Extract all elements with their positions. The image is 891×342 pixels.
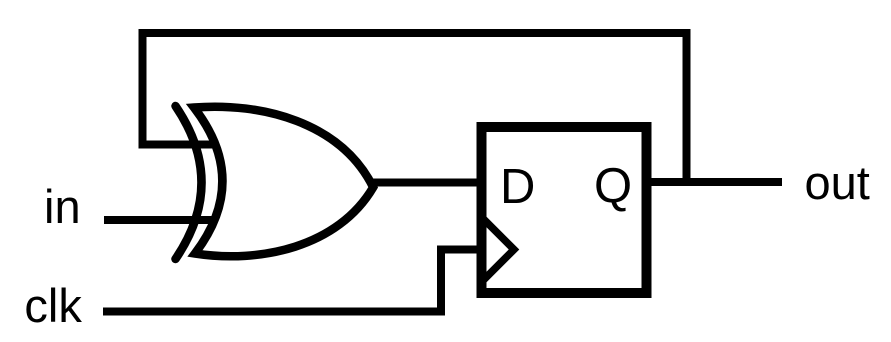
svg-text:D: D xyxy=(500,160,535,214)
wire xor output to D xyxy=(371,179,482,187)
xor gate U1 input arc xyxy=(176,106,202,259)
wire feedback loop xyxy=(143,33,687,182)
wire in xyxy=(104,216,219,224)
xor gate U1 body xyxy=(194,107,373,257)
svg-text:clk: clk xyxy=(24,279,82,332)
D flip-flop U2 box xyxy=(482,127,647,293)
wire Q output xyxy=(648,178,782,186)
svg-text:Q: Q xyxy=(594,159,632,213)
wire clk xyxy=(103,250,481,312)
svg-text:out: out xyxy=(805,156,870,209)
svg-text:in: in xyxy=(44,180,81,233)
D flip-flop clock triangle xyxy=(481,217,514,283)
